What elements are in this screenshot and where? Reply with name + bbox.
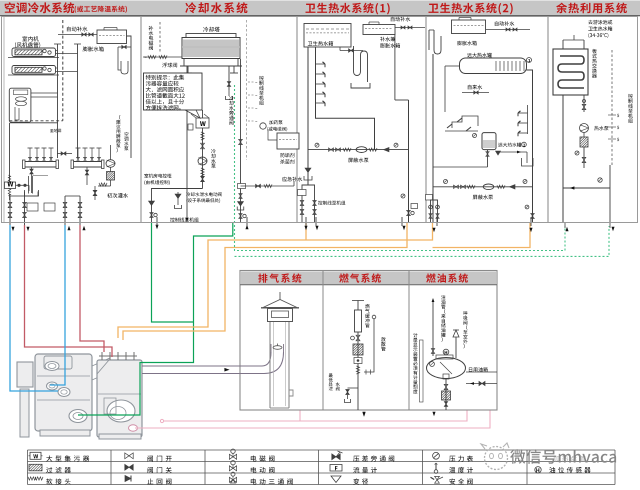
hot water pipe orange 1 [118,223,433,338]
legend 3way valve symbol [229,477,233,482]
system 1 bottom piping [9,196,11,225]
fan coil unit 2 [12,66,56,75]
flow arrows system4 [432,228,435,232]
chiller-boiler machine 1 [17,362,33,387]
hot water riser A system3 [307,47,309,185]
gas riser pipe [357,301,359,411]
tank connection valve [340,50,363,52]
legend oil level sensor symbol [535,467,541,473]
legend label valve open [148,455,172,461]
makeup dashed line [159,22,161,52]
chimney damper [273,346,282,350]
title waste heat system [556,3,627,14]
legend check valve symbol [125,476,131,482]
manifold header 2 [73,162,103,168]
fuel oil pipe pink 2 [135,410,490,428]
label machine room cabinet [144,174,171,178]
plate heat exchanger [553,49,588,95]
label breather valve [463,311,467,348]
left drop pipe [9,123,11,182]
mid horizontal system4 [433,166,488,168]
chimney cap [279,292,281,300]
cooling bypass pipe [240,59,242,222]
gas solenoid valve [356,335,360,338]
legend flex symbol [28,477,36,480]
cooling pump outlet elbow [152,189,203,223]
flow arrows system3 [304,226,307,230]
vertical indoor unit [9,88,31,122]
initial fill valve [93,190,97,193]
title gas system [339,273,381,282]
oil fill pipe [432,300,434,356]
title fuel oil system [426,273,468,282]
tower supply pipe down [186,80,188,218]
expansion tank outlet piping [127,36,132,158]
cooling water pipe green 1 [152,222,194,322]
makeup tank system3 [363,25,395,35]
left riser system4 [432,54,434,222]
gas regulator box [354,358,362,364]
legend label motor valve [251,467,275,473]
shield pump line system3 [308,149,409,151]
boundary pipe stubs [305,217,307,226]
label initial fill water [107,193,128,198]
main area frame [2,17,638,223]
title sanitary hot water system 2 [429,3,513,15]
label vent pipe [381,337,386,351]
legend label 3way valve [251,479,293,485]
left drain system3 [305,168,311,173]
control line green dotted 2 [235,226,610,256]
strainer W system2 [196,118,209,128]
dosing pump [260,123,266,129]
strainer W system1 [5,182,16,189]
fan coil branch pipes [56,50,58,52]
title exhaust system [258,273,301,282]
BROAD hot water tank 1 [460,58,527,74]
legend label reducer [353,478,368,484]
tank2 outlet fittings [486,152,489,154]
title AC chilled water system [5,2,75,13]
legend label flow meter [353,467,377,473]
label control line hw1 [318,201,345,205]
chilled water return pipe red 2 [80,225,104,352]
BROAD hot water tank 2 [482,133,496,150]
label control line to unit [170,218,198,222]
label tap water [468,85,482,90]
cooling pump column [202,128,204,189]
gas buffer tube [355,310,362,332]
cooling tower basin [184,59,238,67]
vent pipe [372,315,376,319]
legend label flex joint [46,478,70,484]
special note box [144,73,203,110]
label to swimming pool [588,20,612,25]
oil tank outlet [443,374,449,379]
legend label safety valve [450,478,473,484]
shield pump line system4 [433,186,533,188]
legend label filter [46,467,71,473]
AC pump flex [99,183,107,186]
header crossover pipe [57,153,72,155]
label metering device [413,333,418,394]
label cooling drain valve [186,192,221,196]
gas drain valve [348,387,359,389]
bottom boundary line [2,222,638,224]
manifold header 1 [24,162,57,168]
oil outlet arrows [362,412,365,416]
U loop system4 [429,30,441,54]
label indoor units [22,36,38,41]
fuel oil pipe pink 1 [160,419,163,422]
AC pump filter [107,172,115,181]
divider 2 [296,17,298,223]
legend label thermometer [449,467,473,473]
stepped shower piping system4 [452,116,478,128]
expansion U trap system3 [354,46,368,82]
label gas buffer tube [365,304,370,328]
legend flow meter symbol [330,465,342,472]
oil return branch [466,371,497,373]
float valve piping [143,56,182,58]
label emergency makeup [282,177,302,182]
label recommend shield pump [116,115,121,152]
title cooling water system [185,2,247,13]
waste heat piping [562,95,564,222]
label shield pump system3 [348,158,368,163]
condensate line [10,122,58,124]
hot water pipe orange 2 [123,223,407,340]
legend heating coil label hidden [553,455,585,461]
tank1 outlet to riser [527,70,533,222]
cooling tower [203,27,219,32]
divider 4 [547,17,549,223]
drain valve branch [177,192,179,205]
fan coil unit 1 [12,48,56,57]
legend table frame [28,449,616,451]
emergency makeup valve [241,185,295,187]
legend valve closed symbol [125,464,129,470]
bottom fittings system3 [302,185,308,222]
tank1 left connection [445,65,460,67]
waste heat pump [582,104,586,107]
taps system4 [527,105,529,134]
label auto makeup 3 [391,17,411,22]
legend valve open symbol [125,453,129,459]
top header band [0,0,640,16]
middle systems box [240,271,497,411]
legend thermometer symbol [434,470,438,474]
legend label check valve [147,479,171,485]
meter box system1 [27,203,38,211]
divider 3 [425,17,427,223]
gas outlet arrow [362,412,365,416]
tower outlet pipes [186,66,188,80]
cooling water pipe green 2 [78,222,233,415]
breather valve pipe [455,337,457,358]
flow arrows system5 [564,222,566,228]
legend diff-pressure bypass symbol [332,454,336,460]
legend label solenoid valve [251,455,275,461]
control line green dotted 1 [235,85,566,251]
indoor unit dashed control [62,20,64,121]
label makeup solenoid [149,26,154,50]
bottom fittings system4 [426,195,433,201]
label daily oil tank [469,367,488,372]
expansion tank 1 [97,30,127,44]
legend motor valve symbol [229,466,233,471]
label oil fill pipe [441,295,445,342]
chimney foot notch [289,390,293,396]
gas flex joint [356,366,359,374]
label expansion tank 1 [83,46,104,51]
riser top caps [54,43,61,45]
label lowest drain valve [329,373,333,390]
gas filter [353,344,363,355]
chiller-boiler machine 2 [97,360,142,437]
hot water U pipe orange 4 [433,223,531,248]
chilled water return pipe red 1 [25,225,113,357]
control dashes right [246,20,248,160]
legend label diff-pressure bypass [353,455,394,461]
sanitary hot water tank 1 [304,24,351,48]
watermark text [510,449,616,464]
chemical tank [277,133,299,149]
control dashed line system5 [611,50,613,165]
legend label pressure gauge [449,456,473,462]
label float valve [162,63,177,68]
legend pressure gauge symbol [433,452,440,459]
label shield pump system4 [473,195,493,200]
label auto make-up water 1 [67,27,88,32]
make-up piping 1 [58,34,97,36]
legend reducer symbol [331,476,341,483]
header drain 1 [31,167,33,190]
header drain 2 [86,167,88,185]
label cooling pump [211,149,216,168]
machine 2 top manifold [101,352,103,360]
label plate heat exchanger [592,49,597,78]
chimney [269,322,271,408]
waste heat filter [580,137,588,147]
legend filter symbol [29,464,42,471]
legend solenoid valve symbol [229,454,233,459]
expansion tank system4 [452,20,486,34]
flue elbow [262,352,271,366]
legend label strainer [46,455,89,461]
daily oil tank [427,358,466,379]
legend strainer symbol [30,452,41,459]
title sanitary hot water system 1 [306,3,390,15]
drain funnel system1 [25,192,39,197]
AC pump [106,160,115,168]
hot water pipe orange 3 [305,223,307,240]
divider 1 [140,17,142,223]
hot water riser B with faucets [316,47,375,150]
legend safety valve symbol [435,476,440,479]
chilled water supply pipe blue 2 [50,225,65,385]
watermark logo [485,447,508,470]
flue duct [142,365,262,367]
legend label valve closed [148,467,172,473]
note pointer [185,110,200,118]
legend label oil level sensor [549,467,590,473]
chilled water supply pipe blue 1 [10,225,58,391]
drain funnel system4 [522,158,534,166]
waste heat bottom line [563,187,610,189]
machine 2 oil port [129,425,138,431]
right riser system3 [408,100,410,222]
flow arrows system 2 [155,225,158,229]
expansion loop U pipe [118,47,121,70]
label makeup expansion tank [380,37,395,42]
chilled water risers [57,44,59,158]
flow arrows system 1 [11,227,14,231]
label auto makeup 4 [495,21,515,26]
